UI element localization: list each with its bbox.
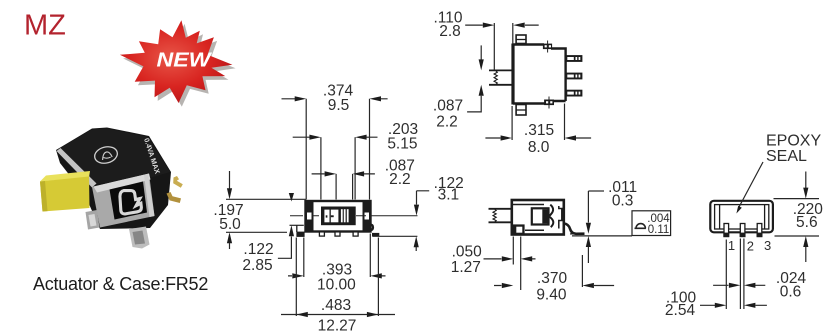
bottom side view bbox=[451, 179, 671, 303]
dimension .110/2.8 bbox=[465, 24, 539, 26]
svg-text:5.0: 5.0 bbox=[219, 216, 241, 233]
top view bottom-right rivet bbox=[544, 100, 554, 106]
front view left mounting tab bbox=[290, 224, 304, 226]
photo front window bbox=[110, 182, 148, 220]
front view slider knob cells bbox=[324, 210, 329, 223]
dimension .483/12.27 bbox=[296, 238, 378, 317]
svg-text:SEAL: SEAL bbox=[766, 148, 807, 165]
side view actuator bbox=[489, 209, 512, 223]
flatness callout box D .004/0.11 bbox=[632, 211, 671, 236]
side view seating plane line bbox=[572, 235, 632, 237]
svg-text:2: 2 bbox=[747, 239, 754, 254]
side view body outline bbox=[512, 200, 564, 235]
switch product photo bbox=[40, 128, 183, 249]
top view terminal 3 bbox=[566, 90, 583, 97]
svg-text:2.54: 2.54 bbox=[665, 302, 696, 319]
side view slider frame bbox=[532, 208, 549, 224]
top view top-right rivet bbox=[543, 44, 552, 50]
svg-text:0.3: 0.3 bbox=[612, 192, 634, 209]
top view terminal 1 bbox=[566, 55, 583, 62]
svg-text:2.2: 2.2 bbox=[389, 171, 411, 188]
photo actuator shading bbox=[40, 181, 48, 212]
photo gold terminal lower bbox=[167, 192, 182, 203]
side view contact spring bbox=[549, 205, 554, 228]
front view bbox=[213, 82, 463, 332]
side view body inner walls bbox=[513, 205, 544, 231]
end view pin 1 bbox=[724, 224, 729, 237]
front view body outline bbox=[306, 201, 371, 232]
svg-text:Actuator & Case:FR52: Actuator & Case:FR52 bbox=[33, 274, 208, 294]
dimension .050/1.27 bbox=[513, 237, 520, 291]
top view body outline bbox=[513, 45, 566, 104]
dimension .087/2.2 front bbox=[336, 174, 353, 200]
svg-text:0.11: 0.11 bbox=[648, 224, 670, 236]
photo top face logo bbox=[93, 144, 119, 165]
dimension .220/5.6 bbox=[774, 199, 820, 236]
svg-text:1: 1 bbox=[728, 238, 735, 253]
top view actuator bbox=[489, 70, 513, 84]
photo actuator top face bbox=[40, 171, 90, 182]
svg-text:8.0: 8.0 bbox=[528, 139, 550, 156]
svg-text:.050: .050 bbox=[452, 243, 483, 260]
svg-text:.122: .122 bbox=[243, 241, 273, 258]
svg-text:5.15: 5.15 bbox=[387, 135, 417, 152]
top view terminal 2 bbox=[566, 73, 583, 80]
side view right wall notch bbox=[559, 206, 562, 229]
svg-text:.483: .483 bbox=[321, 297, 351, 314]
svg-text:3.1: 3.1 bbox=[438, 187, 460, 204]
badge shadow bbox=[123, 24, 236, 107]
front view slider window bbox=[321, 207, 356, 226]
dimension .122/2.85 leader bbox=[278, 237, 292, 259]
photo metal front frame bbox=[92, 174, 155, 228]
top side view bbox=[433, 9, 591, 156]
dimension .197/5.0 bbox=[226, 199, 306, 232]
dimension .374/9.5 bbox=[306, 99, 369, 200]
photo front contact shape bbox=[120, 191, 141, 214]
svg-text:2.8: 2.8 bbox=[439, 23, 461, 40]
side view bottom boss bbox=[513, 224, 525, 235]
photo left small tab bbox=[86, 210, 100, 230]
svg-text:3: 3 bbox=[764, 238, 771, 253]
svg-text:2.85: 2.85 bbox=[242, 257, 272, 274]
svg-text:0.6: 0.6 bbox=[780, 283, 802, 300]
svg-text:9.5: 9.5 bbox=[328, 97, 350, 114]
front view centerline bbox=[290, 215, 418, 217]
svg-text:NEW: NEW bbox=[156, 48, 212, 71]
end view bbox=[665, 133, 823, 320]
dimension .203/5.15 bbox=[321, 137, 355, 199]
photo bottom metal tab bbox=[129, 227, 150, 249]
svg-text:.315: .315 bbox=[524, 122, 554, 139]
svg-text:5.6: 5.6 bbox=[796, 214, 818, 231]
front view seat line right bbox=[372, 235, 417, 237]
dimension .393/10.00 bbox=[304, 234, 371, 278]
top view bottom boss bbox=[516, 105, 526, 116]
epoxy seal leader arrow bbox=[739, 162, 764, 208]
NEW starburst badge bbox=[120, 20, 236, 106]
dimension .024/0.6 bbox=[713, 284, 765, 286]
side view slider block bbox=[542, 209, 548, 223]
svg-text:10.00: 10.00 bbox=[317, 276, 356, 293]
dimension .122/3.1 right bbox=[417, 191, 430, 205]
svg-text:1.27: 1.27 bbox=[451, 259, 481, 276]
end view pin 2 bbox=[740, 224, 745, 237]
front view right mounting tab bbox=[372, 233, 379, 236]
dimension .100/2.54 bbox=[700, 304, 767, 306]
dimension .370/9.40 bbox=[581, 255, 583, 287]
front view left end cap bbox=[305, 201, 314, 233]
svg-text:2.2: 2.2 bbox=[436, 113, 458, 130]
front view right end cap bbox=[363, 201, 372, 233]
photo actuator front face bbox=[40, 177, 90, 212]
end view body outer bbox=[710, 201, 773, 233]
svg-text:9.40: 9.40 bbox=[536, 286, 567, 303]
badge star bbox=[120, 20, 232, 103]
side view gull-wing terminal bbox=[564, 223, 585, 233]
photo body silhouette bbox=[56, 128, 171, 230]
front view right contact curl bbox=[369, 223, 374, 231]
end view pin 3 bbox=[757, 224, 762, 237]
photo gold terminal upper bbox=[173, 176, 183, 188]
pin extension lines bbox=[726, 239, 744, 310]
front view slider stripes bbox=[341, 209, 343, 222]
top view top boss bbox=[516, 35, 526, 44]
photo top face highlight edge bbox=[57, 148, 97, 188]
dimension .087/2.2 top view bbox=[480, 45, 482, 59]
dimension .315/8.0 bbox=[512, 104, 564, 141]
svg-text:MZ: MZ bbox=[24, 10, 66, 42]
front view bottom feet bbox=[319, 232, 324, 236]
svg-text:EPOXY: EPOXY bbox=[766, 133, 821, 150]
end view body inner frame bbox=[715, 205, 769, 229]
svg-text:.087: .087 bbox=[433, 97, 463, 114]
photo top face bbox=[57, 129, 170, 185]
dimension .011/0.3 bbox=[588, 190, 604, 192]
svg-text:.370: .370 bbox=[537, 270, 568, 287]
svg-text:12.27: 12.27 bbox=[318, 317, 357, 332]
